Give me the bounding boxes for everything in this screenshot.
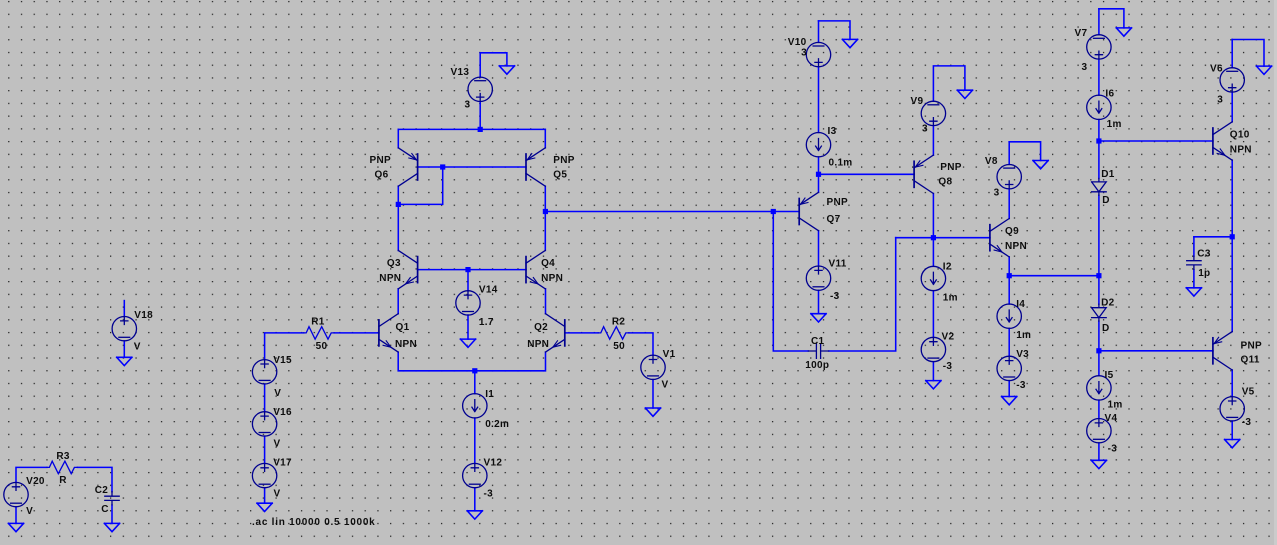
voltage source V3 — [997, 356, 1021, 380]
node Q9 emitter — [1007, 273, 1012, 278]
ground V4 — [1091, 460, 1106, 468]
voltage source V10 — [806, 42, 830, 66]
wire Q9 emitter to node — [1008, 257, 1010, 276]
wire V11 bottom to ground — [818, 290, 820, 313]
voltage source V5 — [1220, 397, 1244, 421]
svg-text:PNP: PNP — [553, 155, 574, 166]
transistor Q10 — [1213, 122, 1232, 160]
wire Q5 emitter to rail — [544, 129, 546, 147]
svg-text:Q2: Q2 — [534, 322, 548, 333]
svg-text:I6: I6 — [1105, 89, 1114, 100]
node Q10 base bias — [1096, 138, 1101, 143]
svg-text:PNP: PNP — [370, 155, 391, 166]
node Q8 collector — [931, 235, 936, 240]
wire base rail to V14 top — [467, 270, 469, 291]
svg-text:0.2m: 0.2m — [485, 419, 509, 430]
svg-text:Q8: Q8 — [938, 177, 952, 188]
transistor Q9 — [990, 219, 1009, 257]
svg-text:50: 50 — [316, 341, 328, 352]
wire Q9 emitter node to diode node — [1009, 275, 1099, 277]
wire Q8 collector to I2 top — [932, 194, 934, 267]
wire V15 to V16 — [264, 384, 266, 412]
svg-text:I5: I5 — [1105, 370, 1114, 381]
svg-text:-3: -3 — [943, 361, 953, 372]
node top rail V13 — [478, 127, 483, 132]
wire I3 bottom to node — [818, 157, 820, 174]
resistor R2 — [598, 327, 629, 340]
svg-text:V18: V18 — [134, 310, 153, 321]
svg-text:V: V — [274, 488, 281, 499]
svg-text:Q6: Q6 — [375, 170, 389, 181]
svg-text:NPN: NPN — [379, 273, 401, 284]
svg-text:V: V — [662, 379, 669, 390]
svg-text:V13: V13 — [451, 67, 470, 78]
wire Q5 collector to Q4 collector — [544, 186, 546, 250]
svg-text:3: 3 — [1082, 62, 1088, 73]
wire V17 bottom to ground — [264, 488, 266, 503]
wire emitter rail Q1 to Q2 — [398, 352, 545, 371]
svg-text:V2: V2 — [942, 332, 955, 343]
svg-text:V: V — [134, 342, 141, 353]
wire C2 bottom to ground — [111, 505, 113, 523]
resistor R1 — [304, 327, 335, 340]
svg-text:V8: V8 — [985, 156, 998, 167]
wire I6 bottom to node — [1098, 120, 1100, 142]
wire C3 bottom to ground — [1193, 270, 1195, 288]
voltage source V11 — [806, 266, 830, 290]
svg-text:3: 3 — [801, 48, 807, 59]
svg-text:Q11: Q11 — [1241, 355, 1260, 366]
svg-text:Q5: Q5 — [553, 170, 567, 181]
wire I5 bottom to V4 top — [1098, 400, 1100, 418]
svg-text:V1: V1 — [663, 349, 676, 360]
wire R2 right to V1 top — [629, 333, 653, 355]
svg-text:D1: D1 — [1101, 169, 1115, 180]
wire I3 node to Q8 base — [819, 173, 915, 175]
wire V10 top to ground — [819, 21, 851, 40]
svg-text:Q7: Q7 — [827, 214, 841, 225]
wire mirror tie Q6 base to collector — [398, 167, 442, 204]
capacitor C3 — [1187, 256, 1201, 269]
svg-text:-3: -3 — [1016, 380, 1026, 391]
transistor Q8 — [914, 155, 933, 193]
svg-text:1.7: 1.7 — [479, 317, 494, 328]
svg-text:V12: V12 — [484, 457, 503, 468]
wire Q4 emitter to Q2 collector — [545, 289, 547, 314]
node emitter rail tail — [472, 368, 477, 373]
svg-text:I2: I2 — [943, 262, 952, 273]
wire Q6 emitter to rail — [397, 129, 399, 147]
wire Q6 base to Q5 base — [418, 166, 526, 168]
svg-text:1p: 1p — [1198, 268, 1210, 279]
transistor Q7 — [799, 192, 818, 230]
diode D2 — [1092, 304, 1107, 321]
node Q6 base tie — [440, 164, 445, 169]
voltage source V12 — [463, 463, 487, 487]
transistor Q1 — [379, 314, 398, 352]
svg-text:-3: -3 — [830, 291, 840, 302]
wire Q3 emitter to Q1 collector — [397, 289, 399, 314]
svg-text:V7: V7 — [1075, 28, 1088, 39]
svg-text:V20: V20 — [26, 476, 45, 487]
current source I6 — [1087, 95, 1111, 119]
wire V3 bottom to ground — [1008, 381, 1010, 397]
wire Q7 collector to V11 top — [818, 231, 820, 266]
capacitor C2 — [105, 492, 119, 505]
wire V15 top to R1 left — [265, 333, 304, 360]
svg-text:V15: V15 — [273, 355, 292, 366]
svg-text:V5: V5 — [1242, 387, 1255, 398]
svg-text:V11: V11 — [829, 259, 847, 270]
voltage source V7 — [1087, 35, 1111, 59]
wire R3 right to C2 top — [77, 467, 112, 491]
ground V9 — [957, 90, 972, 98]
svg-text:R: R — [59, 475, 67, 486]
wire V5 bottom to ground — [1231, 421, 1233, 440]
svg-text:Q4: Q4 — [541, 258, 555, 269]
svg-text:D: D — [1102, 323, 1110, 334]
voltage source V20 — [4, 482, 28, 506]
wire V7 bottom to I6 top — [1098, 59, 1100, 95]
node I3 Q7 Q8 — [816, 172, 821, 177]
wire V16 to V17 — [264, 436, 266, 463]
current source I2 — [921, 266, 945, 290]
wire Q10 collector to V6 bottom — [1231, 92, 1233, 122]
svg-text:D2: D2 — [1101, 298, 1115, 309]
ground V12 — [467, 511, 482, 519]
wire node to D1 anode — [1098, 141, 1100, 178]
wire bias node to Q11 base — [1099, 350, 1213, 352]
svg-text:3: 3 — [922, 124, 928, 135]
wire C1 right up to Q9 base rail — [829, 238, 896, 351]
wire node to I5 top — [1098, 351, 1100, 376]
node output C3 tap — [1230, 234, 1235, 239]
ground V10 — [842, 39, 857, 47]
wire C3 top lead — [1193, 237, 1195, 256]
wire rail to I1 top — [474, 371, 476, 394]
svg-text:D: D — [1102, 195, 1110, 206]
voltage source V4 — [1087, 419, 1111, 443]
wire V7 top riser — [1098, 9, 1100, 35]
voltage source V18 — [112, 317, 136, 341]
svg-text:Q9: Q9 — [1005, 226, 1019, 237]
voltage source V2 — [921, 337, 945, 361]
wire V2 bottom to ground — [932, 362, 934, 381]
wire Q11 collector to V5 top — [1231, 370, 1233, 397]
svg-text:V14: V14 — [479, 285, 498, 296]
wire Q7 emitter to node — [818, 174, 820, 192]
svg-text:R1: R1 — [311, 317, 325, 328]
voltage source V1 — [641, 355, 665, 379]
ground V7 — [1116, 28, 1131, 36]
svg-text:V10: V10 — [788, 37, 807, 48]
wire V8 bottom to Q9 collector — [1008, 189, 1010, 219]
ground V13 — [499, 66, 514, 74]
svg-text:-3: -3 — [1242, 417, 1252, 428]
svg-text:0.1m: 0.1m — [829, 158, 853, 169]
svg-text:3: 3 — [994, 188, 1000, 199]
svg-text:50: 50 — [613, 341, 625, 352]
wire Q2 base to R2 left — [565, 332, 599, 334]
wire I4 bottom to V3 top — [1008, 328, 1010, 356]
svg-text:NPN: NPN — [1230, 145, 1252, 156]
ground C2 — [104, 523, 119, 531]
diode D1 — [1092, 178, 1107, 195]
node Q11 base bias — [1096, 348, 1101, 353]
wire Q7 base down to C1 left — [773, 212, 808, 352]
wire V13 bottom to rail — [479, 102, 481, 130]
voltage source V13 — [468, 77, 492, 101]
wire V8 top riser — [1008, 142, 1010, 165]
svg-text:3: 3 — [465, 100, 471, 111]
current source I5 — [1087, 376, 1111, 400]
wire R1 right to Q1 base — [334, 332, 379, 334]
svg-text:I3: I3 — [828, 126, 837, 137]
svg-text:PNP: PNP — [827, 197, 848, 208]
wire D1 cathode to mid node — [1098, 195, 1100, 275]
ground V6 — [1256, 66, 1271, 74]
svg-text:PNP: PNP — [1241, 340, 1262, 351]
svg-text:1m: 1m — [1016, 330, 1031, 341]
svg-text:NPN: NPN — [527, 339, 549, 350]
svg-text:C: C — [101, 504, 109, 515]
svg-text:V: V — [274, 388, 281, 399]
wire V13 top to ground — [480, 53, 507, 77]
svg-text:V6: V6 — [1210, 63, 1223, 74]
svg-text:PNP: PNP — [940, 162, 961, 173]
wire V9 top to ground — [933, 66, 965, 101]
svg-text:I4: I4 — [1016, 299, 1025, 310]
svg-text:V16: V16 — [273, 407, 292, 418]
svg-text:C3: C3 — [1197, 249, 1211, 260]
wire V18 top stub — [123, 301, 125, 317]
svg-text:Q3: Q3 — [387, 258, 401, 269]
svg-text:1m: 1m — [1108, 400, 1123, 411]
svg-text:NPN: NPN — [395, 339, 417, 350]
wire V20 bottom to ground — [15, 507, 17, 524]
wire Q3 base to Q4 base — [418, 269, 526, 271]
wire Q10 emitter to Q11 emitter — [1231, 160, 1233, 331]
wire V12 bottom to ground — [474, 488, 476, 511]
svg-text:1m: 1m — [1107, 119, 1122, 130]
wire D2 cathode to node — [1098, 321, 1100, 351]
wire V6 top to ground — [1232, 40, 1264, 67]
svg-text:V: V — [26, 506, 33, 517]
svg-text:NPN: NPN — [1005, 241, 1027, 252]
svg-text:.ac lin 10000 0.5 1000k: .ac lin 10000 0.5 1000k — [252, 517, 375, 528]
voltage source V9 — [921, 101, 945, 125]
voltage source V6 — [1220, 68, 1244, 92]
wire V1 bottom to ground — [652, 380, 654, 409]
transistor Q2 — [546, 314, 565, 352]
node Q7 base — [771, 209, 776, 214]
wire V18 bottom to ground — [123, 341, 125, 357]
wire V10 bottom to I3 top — [818, 67, 820, 133]
svg-text:100p: 100p — [805, 360, 829, 371]
current source I1 — [463, 394, 487, 418]
wire top supply rail — [398, 128, 545, 130]
window edge strip — [1274, 0, 1277, 545]
svg-text:V4: V4 — [1105, 413, 1118, 424]
voltage source V15 — [252, 360, 276, 384]
ground V20 — [8, 523, 23, 531]
ground V3 — [1002, 397, 1017, 405]
transistor Q11 — [1213, 332, 1232, 370]
ground V2 — [926, 381, 941, 389]
wire Q6 collector to Q3 collector — [397, 186, 399, 250]
svg-text:3: 3 — [1217, 95, 1223, 106]
wire V7 top to ground — [1099, 9, 1124, 28]
voltage source V17 — [252, 463, 276, 487]
wire I2 bottom to V2 top — [932, 291, 934, 338]
svg-text:V9: V9 — [911, 96, 924, 107]
node Q3 Q4 base bias — [465, 267, 470, 272]
node Q6 collector tie — [396, 202, 401, 207]
ground V18 — [117, 357, 132, 365]
wire bias node to Q10 base — [1099, 140, 1213, 142]
svg-text:C1: C1 — [811, 336, 825, 347]
wire V14 bottom to ground — [467, 315, 469, 339]
current source I4 — [997, 304, 1021, 328]
ground V17 — [257, 503, 272, 511]
svg-text:NPN: NPN — [541, 273, 563, 284]
svg-text:-3: -3 — [484, 488, 494, 499]
svg-text:I1: I1 — [485, 389, 494, 400]
wire C3 top to output node — [1194, 236, 1232, 238]
wire V4 bottom to ground — [1098, 443, 1100, 460]
svg-text:1m: 1m — [943, 293, 958, 304]
ground V8 — [1033, 161, 1048, 169]
svg-text:Q10: Q10 — [1230, 130, 1250, 141]
node first stage output — [543, 209, 548, 214]
node diode midpoint — [1096, 273, 1101, 278]
wire node to Q7 base pin — [773, 211, 799, 213]
svg-text:-3: -3 — [1108, 444, 1118, 455]
transistor Q4 — [526, 250, 545, 288]
ground V14 — [460, 339, 475, 347]
voltage source V16 — [252, 412, 276, 436]
ground V5 — [1225, 440, 1240, 448]
wire node to I4 top — [1008, 276, 1010, 304]
ground V1 — [645, 408, 660, 416]
voltage source V14 — [456, 291, 480, 315]
resistor R3 — [47, 461, 78, 474]
transistor Q5 — [526, 148, 545, 186]
voltage source V8 — [997, 165, 1021, 189]
wire V10 top riser — [818, 21, 820, 43]
capacitor C1 — [808, 344, 828, 359]
wire Q8 collector node to Q9 base — [896, 237, 990, 239]
wire V8 top to ground — [1009, 142, 1040, 161]
svg-text:R3: R3 — [56, 451, 70, 462]
svg-text:V: V — [274, 438, 281, 449]
svg-text:V17: V17 — [273, 457, 292, 468]
svg-text:R2: R2 — [612, 317, 626, 328]
ground V11 — [811, 314, 826, 322]
wire V6 top riser — [1231, 40, 1233, 68]
wire first stage output to Q7 base — [545, 211, 773, 213]
wire V20 top to R3 left — [16, 467, 47, 482]
transistor Q3 — [398, 250, 417, 288]
wire V9 bottom to Q8 emitter — [932, 126, 934, 156]
transistor Q6 — [398, 148, 417, 186]
current source I3 — [806, 133, 830, 157]
svg-text:Q1: Q1 — [396, 322, 410, 333]
wire I1 bottom to V12 top — [474, 418, 476, 464]
svg-text:C2: C2 — [95, 485, 109, 496]
wire mid node to D2 anode — [1098, 276, 1100, 305]
ground C3 — [1186, 288, 1201, 296]
svg-text:V3: V3 — [1016, 349, 1029, 360]
